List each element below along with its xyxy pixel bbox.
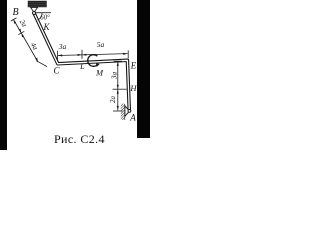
pin triangle at B — [31, 7, 38, 12]
tick at H — [113, 88, 127, 90]
tick at E level (vertical dim) — [114, 60, 123, 62]
moment M circular arrow — [88, 55, 98, 67]
svg-text:5a: 5a — [97, 40, 105, 49]
svg-text:2a: 2a — [18, 18, 29, 29]
ceiling hatched support at B — [28, 1, 47, 7]
vertical dimension line EA — [117, 62, 119, 111]
svg-text:60°: 60° — [40, 14, 50, 21]
caption — [54, 132, 105, 147]
tick at B end — [11, 18, 17, 21]
svg-text:B: B — [12, 7, 18, 18]
pin triangle at A — [125, 106, 130, 116]
arrowheads on CE dimension — [58, 54, 62, 56]
60 degree arc — [38, 13, 42, 20]
dimension line above CE — [58, 54, 128, 56]
tick at E — [127, 50, 129, 58]
horizontal reference line at B — [36, 12, 52, 14]
scan black bar left — [0, 0, 7, 150]
tick at C end — [36, 61, 47, 67]
svg-text:A: A — [129, 113, 136, 123]
scan black bar right — [137, 0, 150, 138]
tick at L — [81, 50, 83, 59]
svg-text:H: H — [129, 83, 137, 93]
arrowheads on BC dimension — [14, 20, 17, 24]
svg-text:C: C — [53, 66, 60, 76]
svg-text:K: K — [42, 22, 50, 32]
arrowheads on EA dimension — [117, 62, 119, 66]
svg-text:2a: 2a — [110, 96, 117, 103]
svg-text:M: M — [95, 68, 104, 78]
frame bars B-C-E-A (double line) — [34, 13, 129, 111]
svg-text:3a: 3a — [58, 42, 67, 51]
dimension line along BC — [14, 20, 39, 63]
hinge circle at A — [128, 110, 131, 113]
svg-text:3a: 3a — [110, 72, 118, 81]
tick at C — [57, 51, 59, 60]
hinge circle at B — [33, 12, 36, 15]
wall hatch at A — [121, 104, 125, 121]
tick at A level — [113, 110, 123, 112]
svg-text:E: E — [130, 61, 137, 71]
tick at K — [18, 31, 24, 34]
svg-text:4a: 4a — [29, 41, 40, 52]
svg-text:L: L — [79, 62, 85, 71]
